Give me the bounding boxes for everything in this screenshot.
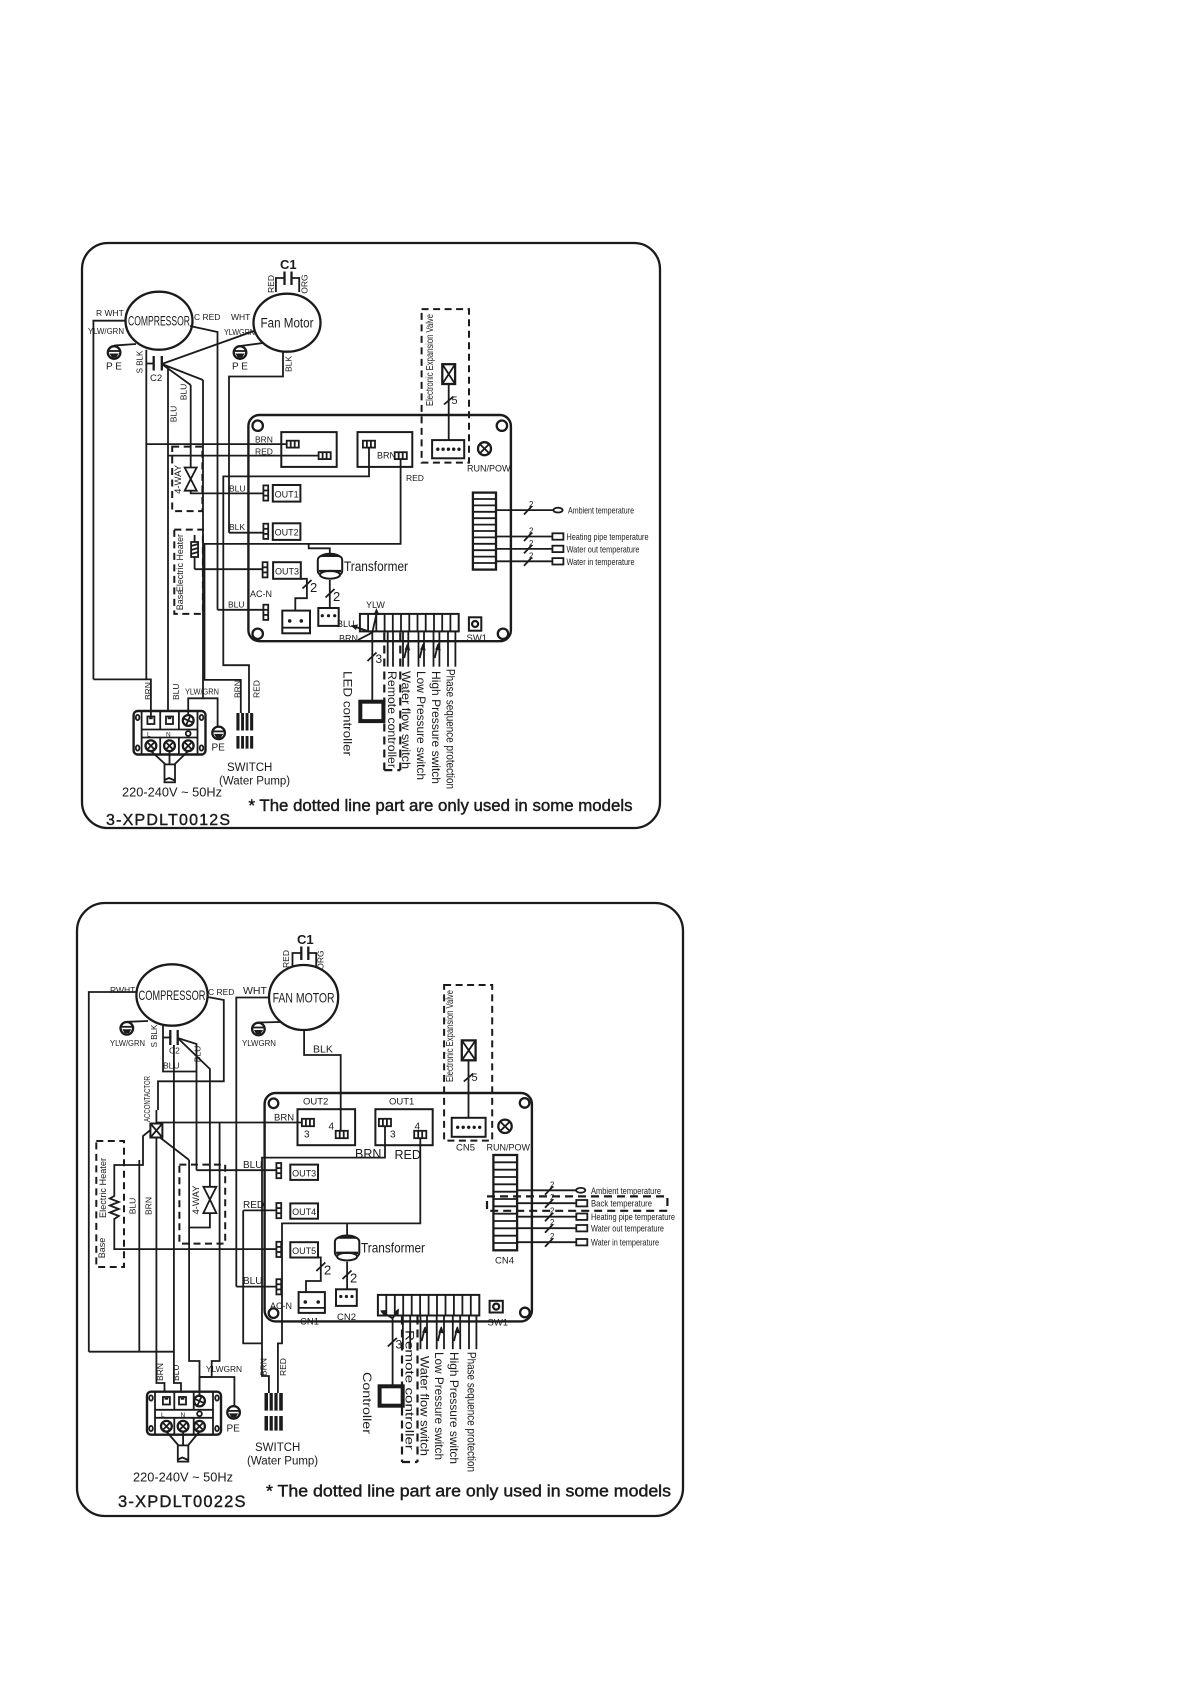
sensor line heating pipe: [496, 527, 649, 544]
sensor line ambient 2: [517, 1180, 661, 1197]
wire C RED down: [190, 326, 218, 610]
electric heater dashed box: [96, 1141, 263, 1267]
svg-text:Water out temperature: Water out temperature: [567, 544, 640, 555]
capacitor C2: [136, 350, 163, 384]
controller wire with 3: [388, 1318, 403, 1386]
svg-text:CN4: CN4: [495, 1256, 514, 1267]
svg-text:2: 2: [310, 580, 317, 595]
svg-text:Remote controller: Remote controller: [402, 1330, 416, 1450]
supply cable 2: [166, 1432, 199, 1462]
svg-text:CN5: CN5: [456, 1143, 475, 1154]
svg-text:CN1: CN1: [300, 1317, 319, 1328]
svg-text:R WHT: R WHT: [96, 308, 124, 318]
svg-text:Electric Heater: Electric Heater: [98, 1158, 108, 1218]
RUN/POW lamp 2: [487, 1120, 531, 1153]
svg-text:RED: RED: [278, 1358, 288, 1376]
dashed box back temperature: [487, 1196, 667, 1210]
4-way valve symbol: [203, 1187, 216, 1200]
LED controller box: [360, 702, 383, 721]
BLU arrow: [337, 619, 372, 633]
svg-text:RUN/POW: RUN/POW: [467, 464, 511, 474]
wires into terminal: [93, 679, 150, 716]
svg-text:BRN: BRN: [255, 435, 273, 445]
wire BLU long vertical: [138, 1160, 140, 1352]
svg-text:FAN MOTOR: FAN MOTOR: [273, 990, 335, 1006]
svg-text:LED controller: LED controller: [341, 671, 355, 756]
svg-text:C2: C2: [150, 373, 162, 384]
svg-text:OUT2: OUT2: [303, 1097, 328, 1108]
svg-text:Low Pressure switch: Low Pressure switch: [414, 671, 428, 780]
sensor line heating pipe 2: [517, 1207, 675, 1224]
wire BLU horizontal: [163, 1038, 197, 1072]
svg-text:High Pressure switch: High Pressure switch: [447, 1352, 461, 1464]
sensor line water out: [496, 539, 640, 556]
svg-text:2: 2: [550, 1180, 555, 1189]
ground fan: [242, 1022, 280, 1048]
lug terminals top row: [147, 717, 154, 725]
svg-text:RUN/POW: RUN/POW: [487, 1143, 531, 1153]
svg-text:OUT3: OUT3: [275, 567, 299, 577]
wire transformer bottom with 2: [346, 1262, 348, 1290]
svg-text:OUT5: OUT5: [292, 1246, 316, 1256]
svg-text:Ambient temperature: Ambient temperature: [568, 506, 634, 517]
connector CN2-like 3 hole: [318, 608, 338, 626]
svg-text:Low Pressure switch: Low Pressure switch: [432, 1352, 446, 1460]
svg-text:YLWGRN: YLWGRN: [206, 1364, 242, 1374]
connector OUT3: [195, 562, 301, 579]
main PCB board: [248, 415, 511, 641]
svg-text:ORG: ORG: [300, 274, 310, 293]
svg-text:Phase sequence protection: Phase sequence protection: [464, 1352, 478, 1472]
svg-text:2: 2: [529, 551, 534, 560]
svg-text:C RED: C RED: [208, 987, 234, 997]
svg-text:BLU: BLU: [171, 683, 181, 700]
heater resistor: [191, 542, 198, 557]
water pump switch 2: [247, 1358, 318, 1467]
sensor line water out 2: [517, 1218, 664, 1235]
connector OUT5: [264, 1242, 319, 1258]
svg-text:2: 2: [324, 1263, 331, 1278]
svg-text:BLU: BLU: [169, 406, 179, 423]
wire BRN to OUT2: [156, 1122, 302, 1124]
svg-text:2: 2: [529, 527, 534, 536]
connector OUT2: [229, 522, 300, 540]
svg-text:YLW/GRN: YLW/GRN: [110, 1038, 145, 1048]
AC contactor: [143, 1076, 189, 1397]
svg-text:WHT: WHT: [231, 312, 250, 322]
wire C2 to fan area: [178, 1038, 197, 1170]
wire OUT1 pin3 BRN to switch: [262, 1126, 385, 1393]
main PCB board 2: [265, 1093, 532, 1321]
svg-text:* The dotted line part are onl: * The dotted line part are only used in …: [249, 797, 633, 815]
wire C2 junction to fan motor: [162, 331, 254, 364]
svg-text:3: 3: [304, 1130, 310, 1141]
svg-text:Ambient temperature: Ambient temperature: [591, 1186, 661, 1197]
svg-text:Electronic Expansion Valve: Electronic Expansion Valve: [425, 314, 436, 406]
wire transformer top: [309, 544, 330, 554]
svg-text:Water in temperature: Water in temperature: [591, 1238, 659, 1249]
svg-text:BLU: BLU: [128, 1198, 138, 1215]
svg-text:RED: RED: [395, 1148, 421, 1162]
wire relay2 RED pin down-left (exits board): [205, 459, 401, 713]
phase sequence pair: [448, 631, 455, 666]
svg-text:C1: C1: [297, 932, 314, 947]
relay OUT2: [298, 1092, 356, 1145]
water pump switch: [219, 680, 290, 787]
wire BLU to OUT1 pins: [248, 492, 264, 494]
wire junction down x168: [167, 367, 169, 718]
controller box: [380, 1386, 403, 1405]
svg-text:220-240V ~ 50Hz: 220-240V ~ 50Hz: [133, 1470, 233, 1485]
board screw holes: [269, 1099, 279, 1109]
connector BLU low: [236, 1276, 281, 1294]
svg-text:L: L: [147, 732, 151, 739]
svg-text:4: 4: [329, 1122, 335, 1133]
svg-text:BLU: BLU: [243, 1276, 262, 1287]
wire transformer bottom with 2: [329, 580, 331, 608]
wire YLWGRN: [188, 380, 203, 715]
svg-text:RED: RED: [243, 1200, 264, 1211]
capacitor C2: [150, 1024, 180, 1056]
YLW arrow: [366, 600, 385, 633]
EEV symbol 2: [462, 1040, 478, 1117]
svg-text:BRN: BRN: [144, 1197, 154, 1215]
relay box 1: [281, 432, 336, 467]
svg-text:Remote controller: Remote controller: [385, 671, 399, 768]
terminal block: [134, 711, 206, 755]
svg-text:COMPRESSOR: COMPRESSOR: [139, 987, 206, 1003]
pin header: [360, 614, 459, 632]
svg-text:AC-N: AC-N: [250, 589, 272, 599]
svg-text:BLU: BLU: [178, 384, 188, 401]
svg-text:C1: C1: [280, 257, 297, 272]
svg-text:2: 2: [550, 1232, 555, 1241]
connector AC-N: [218, 589, 273, 620]
connector OUT3: [197, 1160, 319, 1180]
svg-text:BRN: BRN: [355, 1147, 381, 1161]
wire link: [243, 1210, 262, 1343]
svg-text:RWHT: RWHT: [110, 985, 135, 995]
sensor line ambient: [496, 500, 634, 517]
connector CN1: [299, 1292, 325, 1327]
svg-text:RED: RED: [252, 680, 262, 698]
wire OUT1 pin4 RED to switch: [278, 1138, 420, 1393]
svg-text:OUT1: OUT1: [389, 1097, 414, 1108]
transformer 2: [335, 1236, 426, 1261]
svg-text:5: 5: [472, 1072, 478, 1084]
SW1: [488, 1301, 509, 1329]
svg-text:4-WAY: 4-WAY: [173, 464, 184, 494]
svg-text:RED: RED: [266, 275, 276, 293]
svg-text:BLK: BLK: [313, 1044, 333, 1056]
svg-text:SWITCH: SWITCH: [227, 762, 272, 774]
svg-text:BLU: BLU: [163, 1061, 180, 1071]
svg-text:2: 2: [550, 1218, 555, 1227]
svg-text:2: 2: [529, 500, 534, 509]
electronic expansion valve dashed box: [422, 309, 469, 463]
wire relay2 pin to left (exits board): [223, 448, 369, 713]
wire C2 down: [174, 1045, 181, 1397]
compressor motor: [136, 964, 207, 1025]
svg-text:(Water Pump): (Water Pump): [247, 1456, 318, 1468]
svg-text:3-XPDLT0022S: 3-XPDLT0022S: [118, 1493, 247, 1511]
capacitor C1: [281, 932, 326, 970]
svg-text:2: 2: [350, 1271, 357, 1286]
svg-text:ACCONTACTOR: ACCONTACTOR: [143, 1076, 152, 1122]
RUN/POW lamp: [467, 442, 511, 473]
svg-text:Controller: Controller: [360, 1372, 374, 1434]
pin header 2: [378, 1295, 479, 1316]
wire compressor RWHT to left: [93, 321, 126, 680]
connector OUT1: [229, 484, 300, 502]
svg-text:2: 2: [550, 1193, 555, 1202]
high pressure pair: [434, 631, 441, 666]
svg-text:OUT4: OUT4: [292, 1207, 316, 1217]
LED controller wire with 3: [368, 633, 383, 702]
wire compressor YLWGRN to PE: [114, 344, 136, 346]
wire C RED down: [158, 997, 224, 1110]
svg-text:3: 3: [376, 652, 383, 666]
wire BLU low: [236, 1286, 276, 1288]
svg-text:Base: Base: [175, 590, 185, 611]
svg-text:220-240V ~ 50Hz: 220-240V ~ 50Hz: [122, 785, 222, 800]
svg-text:PE: PE: [227, 1424, 241, 1435]
connector CN2: [336, 1289, 357, 1323]
svg-text:2: 2: [333, 589, 340, 604]
frame diagram 1: [82, 243, 660, 828]
svg-text:BRN: BRN: [339, 634, 358, 644]
ground PE terminal: [212, 727, 226, 754]
remote controller dashed box 2: [402, 1317, 418, 1463]
wire C2 down long (to terminal BRN): [145, 364, 147, 680]
svg-text:BLU: BLU: [171, 1364, 181, 1381]
svg-text:Electric Heater: Electric Heater: [175, 534, 185, 592]
svg-text:BLU: BLU: [337, 619, 355, 629]
board screw holes: [253, 421, 263, 431]
svg-text:SW1: SW1: [467, 633, 488, 644]
svg-text:CN2: CN2: [337, 1312, 356, 1323]
svg-text:YLW: YLW: [366, 600, 385, 610]
svg-text:Heating pipe temperature: Heating pipe temperature: [591, 1212, 675, 1223]
fan motor: [254, 294, 321, 352]
svg-text:* The dotted line part are onl: * The dotted line part are only used in …: [266, 1483, 671, 1501]
terminal block 2: [147, 1392, 221, 1435]
svg-text:AC-N: AC-N: [270, 1301, 292, 1311]
base electric heater dashed box: [174, 530, 203, 614]
connector CN1-like 2 hole: [282, 611, 310, 634]
fan motor: [269, 965, 338, 1030]
svg-text:2: 2: [550, 1207, 555, 1216]
connector OUT4: [243, 1200, 318, 1219]
wire fan BLK: [304, 1030, 341, 1092]
svg-text:SW1: SW1: [488, 1318, 509, 1329]
screw top right: [183, 715, 194, 726]
svg-text:WHT: WHT: [243, 985, 267, 997]
wire YLWGRN 2: [200, 1123, 220, 1398]
wire fan BLK: [229, 352, 283, 533]
relay OUT1: [375, 1097, 432, 1146]
transformer: [318, 554, 409, 579]
svg-text:BLU: BLU: [229, 484, 246, 494]
wire heater to OUT5: [114, 1223, 263, 1249]
sensor line water in: [496, 551, 635, 568]
compressor motor: [126, 292, 193, 350]
BRN arrow: [339, 633, 372, 644]
sensor line water in 2: [517, 1232, 659, 1249]
relay box 2: [358, 432, 413, 467]
svg-text:2: 2: [529, 539, 534, 548]
connector CN5: [452, 1118, 486, 1154]
svg-text:Water out temperature: Water out temperature: [591, 1224, 664, 1235]
svg-text:RED: RED: [406, 473, 424, 483]
svg-text:YLWGRN: YLWGRN: [242, 1038, 276, 1048]
svg-text:High Pressure switch: High Pressure switch: [429, 671, 443, 784]
4-way valve symbol: [185, 468, 197, 480]
svg-text:(Water Pump): (Water Pump): [219, 776, 290, 788]
ground PE terminal 2: [227, 1406, 241, 1434]
4-way valve dashed box: [179, 1160, 225, 1397]
svg-text:Water flow switch: Water flow switch: [399, 671, 413, 769]
wire C2 junction to BLU verticals: [162, 364, 191, 385]
electronic expansion valve dashed box 2: [444, 985, 492, 1141]
low pressure pair: [419, 631, 426, 666]
heater resistor zigzag: [110, 1192, 119, 1223]
sensor line back 2: [517, 1193, 652, 1210]
svg-text:Heating pipe temperature: Heating pipe temperature: [567, 532, 649, 543]
sensor ladder connector: [473, 493, 496, 570]
svg-text:PE: PE: [212, 743, 226, 754]
svg-text:Water in temperature: Water in temperature: [567, 557, 635, 568]
ground PE fan: [232, 343, 263, 373]
svg-text:BLU: BLU: [228, 600, 245, 610]
junction arrows below header: [380, 1309, 399, 1319]
svg-text:S BLK: S BLK: [150, 1024, 159, 1047]
svg-text:BLK: BLK: [284, 356, 294, 372]
svg-text:Phase sequence protection: Phase sequence protection: [443, 669, 457, 789]
svg-text:YLW/GRN: YLW/GRN: [185, 687, 219, 697]
svg-text:BRN: BRN: [143, 682, 153, 700]
ground PE compressor: [106, 346, 122, 372]
capacitor C1: [266, 257, 310, 294]
wire left into terminal: [89, 1351, 174, 1353]
connector CN5-like: [432, 440, 464, 458]
svg-text:SWITCH: SWITCH: [255, 1442, 300, 1454]
svg-text:3: 3: [390, 1130, 396, 1141]
svg-text:Water flow switch: Water flow switch: [417, 1356, 431, 1456]
4-way valve dashed box: [172, 385, 264, 511]
wire AC line with 2: [295, 579, 307, 611]
svg-text:3-XPDLT0012S: 3-XPDLT0012S: [106, 812, 231, 829]
svg-text:Back temperature: Back temperature: [591, 1199, 652, 1210]
svg-text:OUT3: OUT3: [292, 1168, 316, 1178]
svg-text:Base: Base: [97, 1238, 107, 1259]
wire RED to relay1: [168, 455, 319, 457]
svg-text:OUT1: OUT1: [275, 489, 299, 499]
wire BRN to relay1: [146, 443, 286, 445]
remote controller dashed box: [384, 633, 400, 771]
svg-text:P E: P E: [232, 362, 248, 373]
frame diagram 2: [77, 903, 683, 1516]
wire transformer top: [346, 1223, 348, 1235]
svg-text:N: N: [181, 1412, 186, 1419]
svg-text:4-WAY: 4-WAY: [191, 1185, 202, 1215]
svg-text:OUT2: OUT2: [275, 528, 299, 538]
water flow pair: [403, 631, 410, 666]
svg-text:S BLK: S BLK: [136, 350, 145, 373]
CN4 sensor ladder: [493, 1155, 517, 1267]
svg-text:L: L: [161, 1412, 165, 1419]
below header pairs 2: [403, 1316, 410, 1350]
svg-text:P E: P E: [106, 362, 122, 373]
ground compressor: [110, 1021, 148, 1048]
svg-text:BRN: BRN: [377, 451, 396, 461]
wire BLK into OUT2 pin 4: [340, 1092, 342, 1131]
svg-text:Transformer: Transformer: [361, 1241, 425, 1256]
svg-text:Electronic Expansion Valve: Electronic Expansion Valve: [445, 990, 456, 1082]
svg-text:COMPRESSOR: COMPRESSOR: [128, 314, 190, 329]
svg-text:Fan Motor: Fan Motor: [261, 316, 314, 331]
svg-text:RED: RED: [281, 950, 291, 968]
svg-text:BRN: BRN: [259, 1358, 269, 1376]
svg-text:5: 5: [452, 395, 458, 407]
supply cable: [151, 751, 188, 782]
wire OUT5: [264, 1248, 277, 1250]
wire WHT from fan: [236, 998, 269, 1287]
svg-text:Transformer: Transformer: [344, 559, 408, 574]
below header: remote controller pair: [388, 631, 393, 666]
svg-text:BLK: BLK: [229, 522, 245, 532]
wire compressor bottom to C2: [145, 350, 147, 364]
wire heater top: [114, 1145, 143, 1192]
wire compressor RWHT to left: [89, 992, 137, 1352]
svg-text:N: N: [166, 732, 171, 739]
wire junction to 4way: [178, 1038, 210, 1187]
svg-text:BRN: BRN: [155, 1363, 165, 1381]
svg-text:C RED: C RED: [194, 312, 220, 322]
screws bottom row: [146, 740, 157, 751]
SW1: [467, 617, 488, 644]
svg-text:BRN: BRN: [233, 680, 243, 698]
EEV symbol: [442, 364, 457, 440]
wire compressor bottom to C2: [162, 1026, 164, 1038]
wire CN1 with 2: [306, 1257, 321, 1292]
